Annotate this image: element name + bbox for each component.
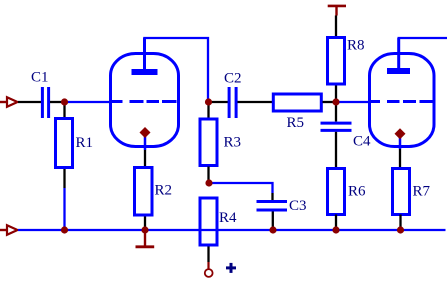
svg-text:R1: R1 (76, 135, 94, 151)
svg-text:R8: R8 (347, 38, 365, 54)
wire V2 plate to right edge (output) (398, 37, 447, 39)
resistor R4 (200, 198, 217, 245)
svg-text:C4: C4 (353, 134, 371, 150)
wire (pin) cathode to R7 (399, 149, 401, 168)
wire (pin) R2 to rail (144, 217, 146, 231)
tube V2 envelope (370, 54, 435, 147)
junction node D (R5/R8/C4/grid2) (332, 98, 339, 105)
wire (pin) power to R8 (335, 16, 337, 37)
capacitor C4 (321, 123, 352, 130)
tube V1 cathode line (144, 133, 147, 151)
junction R2/rail (141, 226, 148, 233)
resistor R3 (200, 119, 217, 166)
wire node A to tube V1 grid (67, 101, 111, 103)
tube V1 cathode dot (140, 127, 151, 138)
wire (pin) IN1 to C1 (18, 101, 41, 103)
svg-text:R3: R3 (224, 135, 242, 151)
svg-text:R2: R2 (155, 183, 173, 199)
svg-text:R5: R5 (287, 115, 305, 131)
power port +V bar (328, 6, 346, 16)
capacitor C1 (42, 87, 48, 118)
wire (pin) R6 to rail (335, 215, 337, 231)
svg-text:R7: R7 (413, 184, 431, 200)
resistor R1 (56, 119, 73, 168)
tube V1 grid (dashed) (111, 100, 177, 103)
wire (pin) R3 to node C (207, 167, 209, 184)
port IN2 (bottom-left arrow) (0, 225, 18, 235)
wire (pin) node B to C2 (209, 101, 229, 103)
port IN1 (top-left input arrow) (0, 97, 18, 107)
tube V1 envelope (111, 54, 179, 147)
junction R1/rail (61, 226, 68, 233)
capacitor C3 (257, 202, 288, 211)
wire (pin) C2 to R5 (238, 101, 273, 103)
resistor R7 (393, 169, 410, 215)
wire (pin) node B down to R3 (207, 102, 209, 118)
junction C3/rail (269, 226, 276, 233)
wire (pin) node A down to R1 (63, 102, 65, 118)
svg-text:R6: R6 (348, 184, 366, 200)
wire (pin) cathode to R2 (144, 150, 146, 167)
wire (pin) R4 bottom to terminal (207, 247, 209, 263)
bottom rail wire (18, 229, 446, 231)
resistor R8 (328, 38, 345, 85)
wire (pin) R1 bottom (63, 169, 65, 188)
resistor R5 (273, 94, 321, 111)
resistor R2 (135, 168, 153, 216)
junction R6/rail (332, 226, 339, 233)
wire (pin) R7 to rail (399, 215, 401, 231)
junction R7/rail (397, 226, 404, 233)
supply terminal circle (205, 269, 213, 277)
tube V2 cathode line (399, 134, 402, 149)
wire (pin) C3 to rail (272, 212, 274, 231)
resistor R6 (328, 169, 345, 215)
tube V1 plate pin (143, 38, 146, 69)
tube V2 plate pin (397, 38, 400, 68)
wire node C to C3 (211, 183, 273, 193)
wire (pin) node D down to C4 (335, 102, 337, 122)
tube V2 cathode dot (395, 128, 406, 139)
svg-text:C3: C3 (289, 198, 307, 214)
capacitor C2 (229, 87, 236, 118)
svg-text:C2: C2 (224, 71, 242, 87)
junction node A (C1/R1/grid) (61, 98, 68, 105)
wire node D to tube V2 grid (338, 101, 370, 103)
tube V2 plate bar (387, 68, 410, 74)
wire (pin) down to C3 (271, 193, 273, 200)
wire R1 to bottom rail (63, 188, 65, 230)
wire V1 plate to node B (up and over) (143, 38, 208, 100)
junction node B (plate/C2/R3) (205, 98, 212, 105)
tube V2 grid (dashed) (370, 100, 434, 103)
wire (pin) R5 to node D (323, 101, 337, 103)
ground symbol (136, 230, 155, 247)
wire (pin) C1 to node A (50, 101, 64, 103)
supply terminal stub (207, 262, 209, 269)
wire (pin) C4 to R6 (335, 132, 337, 168)
svg-text:C1: C1 (31, 70, 49, 86)
svg-text:R4: R4 (219, 210, 237, 226)
wire (pin) R8 to node D (335, 86, 337, 103)
junction node C (R3/R4/C3) (205, 179, 212, 186)
label + (supply polarity) (226, 263, 236, 273)
tube V1 plate bar (132, 69, 158, 75)
